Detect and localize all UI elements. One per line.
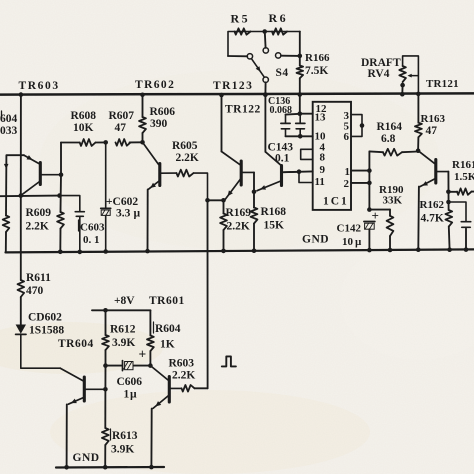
node R163-bus [416, 92, 421, 97]
svg-text:TR121: TR121 [426, 78, 459, 90]
wire ground rail [6, 249, 474, 252]
svg-text:TR603: TR603 [19, 80, 60, 92]
svg-text:R605: R605 [172, 140, 198, 152]
resistor R611 [18, 196, 25, 297]
svg-text:R5: R5 [231, 12, 250, 26]
label C603 [79, 220, 105, 234]
label R161 value [454, 171, 474, 183]
resistor R161 [448, 188, 474, 194]
wire TR121 base column [447, 172, 449, 210]
node TR603 base [59, 172, 64, 177]
wire pin11 strap [299, 172, 313, 183]
wire bus to Q-left collector [221, 95, 223, 152]
node C-branch junction [446, 200, 451, 205]
capacitor C603 [75, 212, 84, 252]
label TR604 [58, 338, 94, 350]
svg-text:R606: R606 [150, 106, 176, 118]
node R190 junction [367, 207, 372, 212]
capacitor C606 [123, 361, 134, 371]
resistor R607 [116, 139, 131, 146]
wire C603 branch [61, 196, 80, 212]
svg-text:S4: S4 [276, 67, 289, 79]
node collector junction [19, 193, 24, 198]
wire bus to C136 [299, 95, 301, 114]
transistor TR601 [150, 366, 181, 409]
wire C136 bottom to pin10 [286, 135, 313, 137]
label R608 value [73, 122, 94, 134]
wire R611 to diode [20, 297, 22, 325]
label DRAFT [361, 57, 401, 69]
svg-text:8: 8 [320, 152, 326, 164]
switch S4 centre contact [263, 48, 268, 53]
label IC1 pin2 [344, 178, 350, 190]
label R168 value [264, 220, 285, 232]
node pin9 junction [297, 169, 302, 174]
svg-text:10K: 10K [73, 122, 94, 134]
node TR121 collector [416, 148, 421, 153]
resistor R603 [182, 385, 195, 392]
node R168-rail [252, 248, 257, 253]
node pin2 junction [367, 181, 372, 186]
svg-text:47: 47 [426, 125, 438, 137]
label R190 [379, 184, 404, 196]
label TR603 [19, 80, 60, 92]
svg-text:R164: R164 [377, 121, 403, 133]
label R166 [305, 52, 330, 64]
label IC1 pin5 [344, 121, 350, 133]
wire R612-TR604 base link [104, 366, 106, 390]
label C606 [117, 376, 143, 388]
transistor Q-left [222, 152, 255, 200]
svg-text:604: 604 [0, 113, 18, 125]
svg-text:13: 13 [315, 112, 327, 124]
wire R609 column [59, 143, 62, 252]
switch S4 lower contact [263, 77, 268, 82]
svg-text:9: 9 [320, 164, 326, 176]
label S4 [276, 67, 289, 79]
svg-text:2.2K: 2.2K [26, 221, 49, 233]
svg-text:TR123: TR123 [213, 80, 253, 92]
label R606 value [150, 118, 168, 130]
pot RV4 bracket [403, 56, 419, 94]
label R612 [110, 324, 136, 336]
label C142 value [342, 236, 362, 248]
svg-text:TR602: TR602 [135, 79, 175, 91]
node TR604 base junction [103, 387, 108, 392]
label IC1 pin1 [345, 166, 351, 178]
transistor TR604 [60, 368, 105, 404]
resistor R5 [235, 28, 251, 34]
svg-text:C603: C603 [80, 222, 105, 234]
svg-text:R612: R612 [110, 324, 136, 336]
transistor TR121 [418, 151, 448, 187]
capacitor C136 right [296, 114, 305, 137]
label TR121 [426, 78, 459, 90]
label C606 plus [139, 347, 147, 362]
label TR123 [213, 80, 253, 92]
node C136 bottom [298, 134, 303, 139]
node R612 bottom [103, 363, 108, 368]
svg-text:7.5K: 7.5K [305, 65, 328, 77]
node RV4-bus [400, 92, 405, 97]
resistor R605 [177, 170, 194, 177]
label TR122 [225, 104, 261, 116]
wire cap branch [449, 202, 467, 221]
svg-text:R613: R613 [112, 430, 138, 442]
svg-text:R609: R609 [26, 207, 52, 219]
svg-text:+8V: +8V [114, 295, 135, 307]
wire R166 to bus [299, 78, 301, 94]
wire junction to switch centre [264, 34, 267, 48]
svg-text:C142: C142 [337, 223, 362, 235]
ic IC1 box [313, 102, 351, 210]
wire bottom emitter rail [56, 466, 164, 469]
node TR601 collector [148, 363, 153, 368]
resistor R166 [297, 66, 304, 79]
label R611 value [26, 285, 44, 297]
label C603 value [83, 234, 100, 246]
svg-text:2.2K: 2.2K [172, 370, 195, 382]
label CD602 [28, 312, 62, 324]
label C143 value [275, 153, 290, 165]
svg-text:R604: R604 [155, 323, 181, 335]
label IC1 pin3 [344, 110, 350, 122]
capacitor C-right plates [461, 222, 470, 228]
svg-text:R169: R169 [226, 207, 252, 219]
svg-text:GND: GND [302, 234, 329, 246]
node Q-left base/R168 [252, 190, 257, 195]
wire C136 left top link [286, 113, 300, 116]
node S4-bus [263, 92, 268, 97]
svg-text:µ: µ [134, 208, 141, 220]
wire pin1 lead [351, 170, 369, 172]
capacitor C136 left [281, 115, 290, 137]
node bus-R166 crossing [298, 92, 303, 97]
wire R190 branch [369, 209, 390, 211]
label C602 [106, 196, 138, 208]
label IC1 pin6 [344, 131, 350, 143]
node cap-rail [464, 247, 469, 252]
node pin5 strap [360, 123, 365, 128]
svg-text:+: + [372, 208, 379, 223]
wire R611 column upper [20, 95, 22, 196]
label R605 value [176, 152, 199, 164]
resistor R6 [272, 28, 287, 34]
node TR604 emitter-rail [64, 465, 69, 470]
label C142 plus [372, 208, 379, 223]
diode CD602 [16, 325, 26, 335]
resistor R162 [445, 210, 452, 227]
wire TR601 emitter down [150, 409, 152, 468]
label IC1 pin4 [320, 142, 326, 154]
wire R6 to R166 column [299, 32, 301, 66]
resistor R604 [147, 310, 154, 365]
node C142-rail [367, 248, 372, 253]
resistor R164 [369, 149, 418, 156]
svg-text:3.9K: 3.9K [112, 337, 135, 349]
label R612 value [112, 337, 135, 349]
wire R608 row [61, 141, 143, 143]
label RV4 [368, 68, 390, 80]
svg-text:R168: R168 [261, 206, 287, 218]
svg-text:R162: R162 [420, 199, 445, 211]
node R608-C602 junction [103, 140, 108, 145]
svg-text:1C1: 1C1 [323, 196, 349, 208]
pot RV4 wiper [408, 74, 418, 78]
label R164 [377, 121, 403, 133]
svg-text:1: 1 [124, 389, 130, 401]
node R190-rail [388, 248, 393, 253]
label IC1 pin11 [315, 176, 325, 188]
label C136 [268, 96, 290, 107]
label IC1 name [323, 196, 349, 208]
wire R163 to collector node [417, 137, 419, 150]
wire R606 bottom [142, 133, 144, 142]
capacitor C602 [101, 142, 111, 251]
switch S4 pole contact [247, 54, 252, 59]
node R166 top [298, 54, 303, 59]
svg-text:µ: µ [130, 389, 137, 401]
wire TR604 emitter down [66, 404, 68, 467]
svg-text:3.9K: 3.9K [111, 444, 134, 456]
wire diode to TR604 [21, 334, 61, 368]
wire left to switch pole [228, 55, 247, 57]
node bus-left transistor [219, 93, 224, 98]
svg-text:3.3: 3.3 [116, 208, 131, 220]
svg-text:11: 11 [315, 176, 325, 188]
label R605 [172, 140, 198, 152]
node R161 junction [446, 190, 451, 195]
node emitter wire left [221, 198, 226, 203]
svg-text:4.7K: 4.7K [421, 213, 444, 225]
wire RV4 to bus [401, 85, 403, 94]
label IC1 pin9 [320, 164, 326, 176]
wire R605 to one-shot column [194, 173, 208, 200]
label C136 value [270, 105, 293, 116]
node R609-rail [58, 250, 63, 255]
svg-text:+C602: +C602 [106, 196, 138, 208]
label R613 [111, 429, 138, 442]
svg-text:10: 10 [342, 236, 354, 248]
label R166 value [305, 65, 328, 77]
svg-text:15K: 15K [264, 220, 285, 232]
label IC1 pin12 [316, 103, 328, 115]
wire Q-left base down [253, 172, 255, 191]
node bus-R606 [140, 93, 145, 98]
wire C136 top to pin13 [300, 113, 313, 115]
node TR602 emitter-rail [145, 249, 150, 254]
resistor R613 [102, 389, 109, 467]
svg-text:6: 6 [344, 131, 350, 143]
svg-text:1K: 1K [160, 339, 175, 351]
resistor R612 [102, 310, 109, 365]
svg-text:0. 1: 0. 1 [83, 234, 100, 246]
wire R603 link [195, 387, 208, 389]
wire C606 row [106, 365, 151, 367]
node R5-R6 junction [262, 29, 267, 34]
wire far-left to rail [5, 232, 7, 252]
svg-text:R607: R607 [109, 110, 135, 122]
label R6 [269, 11, 288, 25]
transistor TR603 [22, 155, 61, 195]
node pin1 junction [367, 168, 372, 173]
wire emitter link [208, 199, 224, 201]
label R603 value [172, 370, 195, 382]
node base row right [57, 193, 62, 198]
resistor R190 [387, 210, 394, 250]
label R606 [150, 106, 176, 118]
svg-text:CD602: CD602 [28, 312, 62, 324]
wire bus to R163 [417, 94, 419, 123]
resistor R168 [251, 192, 258, 251]
transistor Q-right [257, 152, 299, 191]
node R613-rail [103, 465, 108, 470]
label R5 [231, 12, 250, 26]
label R163 [421, 113, 446, 125]
pot RV4 body [399, 66, 406, 82]
svg-text:033: 033 [0, 125, 18, 137]
wire far-left column [5, 155, 7, 215]
label GND2 [73, 452, 100, 464]
label R190 value [383, 195, 403, 207]
svg-text:6.8: 6.8 [381, 133, 396, 145]
transistor TR602 [143, 142, 177, 189]
node one-shot column top [205, 198, 210, 203]
label R168 [261, 206, 287, 218]
label GND [302, 234, 329, 246]
label IC1 pin8 [320, 152, 326, 164]
capacitor C142 [364, 222, 375, 251]
label R608 [71, 110, 97, 122]
label R603 [169, 358, 195, 370]
wire +8V feed [92, 309, 150, 311]
svg-text:2: 2 [344, 178, 350, 190]
svg-text:R603: R603 [169, 358, 195, 370]
svg-text:TR122: TR122 [225, 104, 261, 116]
pulse waveform symbol [222, 356, 236, 366]
svg-text:C606: C606 [117, 376, 143, 388]
svg-text:2.2K: 2.2K [176, 152, 199, 164]
label R609 value [26, 221, 49, 233]
resistor R606 [139, 117, 146, 133]
wire cap to rail [465, 229, 467, 250]
svg-text:R608: R608 [71, 110, 97, 122]
svg-text:47: 47 [115, 122, 127, 134]
label R169 value [227, 221, 250, 233]
label R607 value [115, 122, 127, 134]
wire S4 lower to bus [264, 82, 266, 94]
switch S4 wiper [251, 59, 264, 78]
label R162 value [421, 213, 444, 225]
wire base node row [0, 195, 60, 198]
wire pins3-5-6 strap [351, 115, 362, 137]
label R161 [452, 159, 474, 171]
label IC1 pin10 [315, 131, 327, 143]
wire pins12 column [368, 151, 370, 209]
resistor R163 [415, 123, 422, 138]
svg-text:0.068: 0.068 [270, 105, 293, 116]
wire bus to Q-right collector [264, 95, 266, 152]
svg-text:470: 470 [26, 285, 44, 297]
svg-text:R166: R166 [305, 52, 330, 64]
svg-text:TR601: TR601 [149, 295, 185, 307]
label R163 value [426, 125, 438, 137]
label C606 value [124, 389, 138, 401]
svg-text:390: 390 [150, 118, 168, 130]
node C603-rail [78, 250, 83, 255]
node emitter-rail [416, 247, 421, 252]
svg-text:33K: 33K [383, 195, 403, 207]
resistor R169 [220, 200, 227, 251]
node R162-rail [447, 247, 452, 252]
arrow flow far-left [4, 164, 9, 169]
svg-text:R161: R161 [452, 159, 474, 171]
svg-text:TR604: TR604 [58, 338, 94, 350]
node bus-R611 column [19, 92, 24, 97]
label TR602 [135, 79, 175, 91]
resistor R609 [57, 212, 64, 229]
node C136 top [298, 111, 303, 116]
label R162 [420, 199, 445, 211]
node bus-right transistor [263, 93, 268, 98]
svg-text:+: + [139, 347, 147, 362]
svg-text:2.2K: 2.2K [227, 221, 250, 233]
label R607 [109, 110, 135, 122]
label C143 [268, 142, 294, 154]
svg-text:R163: R163 [421, 113, 446, 125]
wire main horizontal bus [0, 93, 474, 94]
svg-text:µ: µ [355, 236, 362, 248]
wire right contact to R166 [281, 55, 300, 57]
svg-text:1: 1 [345, 166, 351, 178]
resistor far-left [3, 216, 10, 233]
label CD602 type [29, 325, 64, 337]
node C602-rail [103, 249, 108, 254]
label R604 [154, 322, 181, 335]
svg-text:1S1588: 1S1588 [29, 325, 64, 337]
node TR601 emitter-rail [149, 465, 154, 470]
wire R606 top [142, 95, 144, 117]
switch S4 right contact [276, 53, 281, 58]
node R607-R606 junction [140, 140, 145, 145]
wire TR121 emitter down [417, 187, 420, 250]
node R612 top [103, 308, 108, 313]
label R604 value [160, 339, 175, 351]
svg-text:1.5K: 1.5K [454, 171, 474, 183]
svg-text:RV4: RV4 [368, 68, 390, 80]
label C142 [337, 223, 362, 235]
wire R5-R6 top [228, 32, 300, 57]
svg-text:GND: GND [73, 452, 100, 464]
label TR601 [149, 295, 185, 307]
label IC1 pin13 [315, 112, 327, 124]
wire pin9 lead [284, 170, 313, 173]
wire TR603 emitter top [7, 154, 24, 156]
label R613 value [111, 444, 134, 456]
label R169 [226, 207, 252, 219]
label R609 [26, 207, 52, 219]
label +8V [114, 295, 135, 307]
wire TR602 emitter down [147, 189, 149, 251]
wire one-shot column [207, 200, 209, 388]
wire pin2 lead [351, 182, 369, 184]
label R611 [26, 272, 51, 284]
svg-text:R6: R6 [269, 11, 288, 25]
wire pins4-8 strap [301, 149, 313, 159]
label C604 partial [0, 111, 18, 137]
label C602 value [116, 208, 141, 220]
node RV4 bottom [400, 83, 405, 88]
